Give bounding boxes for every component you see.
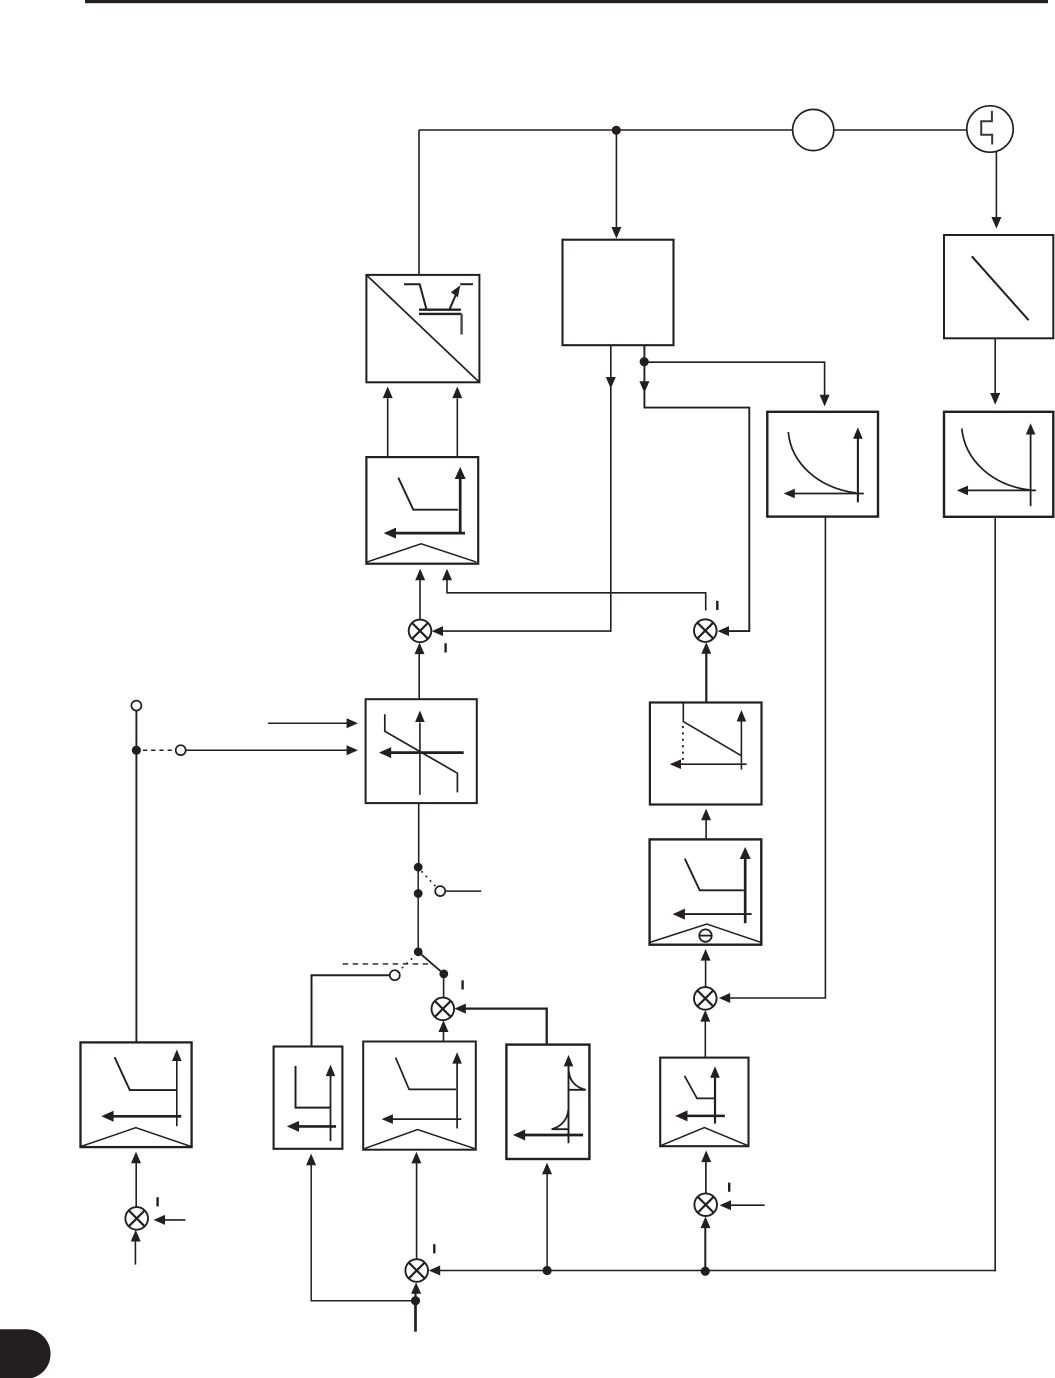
node: blade contact [439,970,448,979]
node: B2 output 2 junction [640,357,649,366]
wire: switch vertical [417,869,419,952]
wire: X3 output up into B9 [705,954,707,988]
wire: switching circle down into block B3 [995,152,997,217]
block B10: limit curve with chevron [81,1042,192,1147]
block B9: limit curve with chevron and theta [650,839,762,944]
multiplier X6 [405,1259,428,1282]
transistor glyph inside B1 [404,284,426,309]
tick at X5 [728,1183,730,1192]
node: top bus junction [612,126,621,135]
upper pulse sail [569,1072,586,1090]
wire: bus junction up into B13 [546,1167,548,1266]
wire: X4 output up into B10 [135,1156,137,1207]
multiplier X1 [409,620,432,643]
block B6: decay curve graph [944,412,1053,517]
dotted link to lower contact [397,957,413,973]
wire: junction right then down into block B5 [644,362,824,399]
top rule [85,0,1048,3]
wire: X2 output up, left, up into B4 [447,580,706,611]
wire: contact left then down into B11 [312,975,390,1046]
wire: X6 output up into B12 [416,1156,418,1259]
terminal: open circle lower left contact [390,970,400,980]
wire: top bus down to driver block B1 [418,130,420,275]
page tab marker [0,1329,51,1378]
node: bottom input junction [411,1296,420,1305]
wire: B5 output down then left into multiplier X3 [723,517,825,998]
terminal: open circle switch alternate [435,886,445,896]
block B1: output driver with transistor [366,275,479,382]
wire: input node up into X6 [414,1286,416,1301]
wire: B8 output up into X2 [705,647,707,703]
tick at X2 [716,601,718,610]
node: bus junction to X5 [701,1267,710,1276]
wire: B9 output up into B8 [705,813,707,839]
lower pulse sail [552,1110,569,1129]
multiplier X4 [125,1207,148,1230]
wire: B2 output 1 down then left into multiplier X1 [435,345,611,631]
wire: bottom bus into X6 [432,1270,996,1272]
multiplier X7 [432,998,455,1021]
block B5: decay curve graph [767,412,878,517]
terminal: open circle on pedal line [176,745,186,755]
wire: B12 output up into X7 [443,1024,445,1042]
wire: B7 bottom down to switch [418,803,420,863]
tick at X6 [433,1244,435,1253]
multiplier X2 [694,619,717,642]
dashed link to open circle [143,749,175,751]
multiplier X3 [694,987,717,1010]
tick at X1 [444,643,446,652]
theta symbol [699,929,711,941]
block B11: step response graph [274,1047,343,1149]
dashed actuation line [343,963,428,965]
block B8: ramp with dotted threshold [650,703,762,805]
wire: bare arrow into B7 left upper [268,722,353,724]
wire: bottom bus junction up into X5 [704,1221,706,1272]
wire: X1 output up into B4 [419,580,421,620]
block B14: limit curve with chevron [660,1058,748,1147]
wire: contact down to multiplier X7 [443,974,445,998]
block B3: falling ramp [944,235,1053,338]
signal circle [793,109,834,150]
wire: B6 output down to bottom bus [994,517,997,1271]
wire: stub up into X4 bottom [134,1234,136,1265]
wire: B14 output up into X3 [704,1014,706,1057]
node: switch mid [414,889,423,898]
node: bus junction to B13 [543,1266,552,1275]
wire: B3 down into block B6 [994,338,996,393]
wire: B7 output up into X1 [418,647,420,700]
node: switch pole bottom [414,947,423,956]
node: left column junction [132,746,141,755]
block B13: transient pulse shapes [506,1045,589,1159]
terminal: open circle top left [131,701,141,711]
block B12: limit curve with chevron [363,1042,476,1150]
block B2: empty square [563,240,674,346]
multiplier X5 [694,1193,717,1216]
wire: X5 output up into B14 [705,1155,707,1194]
switch blade engaged [418,952,444,974]
wire: stub right of alternate contact [445,890,481,892]
wire: junction down into block B2 [615,130,617,227]
wire: B2 output 2 down, right, down into multiplier X2 [644,345,749,631]
step glyph inside switching circle [981,111,992,145]
node: switch pole top [414,863,423,872]
wire: bottom input stub [414,1301,417,1332]
block B4: limit curve with selector chevron [366,457,478,564]
wire: bare arrow into X5 right [725,1204,765,1206]
wire: pedal input line into B7 left lower [186,749,353,751]
wires: block B4 up into B1 (two) [387,398,389,457]
wire: left column vertical down to B10 [135,711,137,1042]
wire: bare arrow into X4 right [159,1219,186,1221]
wire: B13 output up then left into X7 [459,1009,547,1045]
switching-signal circle [967,106,1013,152]
wire: top bus segment between circles [834,129,967,131]
wire: top bus segment left of signal circle [419,129,793,131]
tick at X7 [461,980,463,989]
block B7: bipolar droop curve [366,699,477,803]
tick at X4 [156,1197,158,1206]
dashed switch alternate position [422,871,437,887]
wire: junction left then up into B11 [311,1160,415,1301]
